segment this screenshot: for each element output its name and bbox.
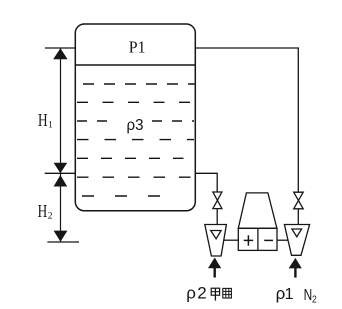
valve V2 left (hourglass) bbox=[213, 192, 222, 209]
differential pressure transmitter body (trapezoid) bbox=[238, 193, 277, 228]
label methanol CJK char chun bbox=[223, 288, 232, 298]
dimension arrow top (up) bbox=[53, 48, 67, 59]
svg-text:ρ: ρ bbox=[186, 283, 196, 302]
dimension tick bottom bbox=[47, 241, 79, 243]
liquid level dashes row 2 bbox=[77, 101, 192, 103]
tank T1 vessel outline bbox=[75, 24, 195, 211]
rotameter FI2 left (funnel) bbox=[205, 225, 227, 257]
liquid level dashes row 5 bbox=[77, 157, 184, 159]
dimension arrow middle pointing up bbox=[54, 175, 68, 187]
label rho3 density of liquid bbox=[127, 117, 144, 134]
impulse line transmitter to right rotameter bbox=[277, 239, 288, 241]
methanol inlet arrow (filled) bbox=[208, 258, 220, 278]
impulse line left rotameter to transmitter bbox=[224, 239, 239, 241]
label P1 bbox=[129, 37, 146, 56]
minus chamber sign bbox=[264, 239, 273, 241]
svg-text:1: 1 bbox=[285, 286, 294, 303]
svg-text:1: 1 bbox=[48, 121, 53, 131]
svg-text:H: H bbox=[38, 110, 48, 130]
pipe left valve to rotameter bbox=[216, 209, 218, 225]
top impulse pipe from tank top to right valve bbox=[195, 48, 298, 192]
lower tap pipe from tank side to left valve bbox=[195, 173, 217, 192]
svg-text:2: 2 bbox=[197, 283, 206, 302]
label methanol CJK char jia bbox=[211, 288, 219, 300]
liquid level dashes row 6 bbox=[77, 176, 191, 178]
tank header divider line bbox=[75, 64, 195, 66]
label rho2 methanol density bbox=[186, 283, 207, 302]
dimension tick top bbox=[45, 47, 75, 49]
svg-text:ρ3: ρ3 bbox=[127, 117, 144, 134]
plus chamber sign bbox=[244, 235, 254, 245]
rotameter FI1 float triangle bbox=[292, 229, 302, 237]
liquid level dashes row 3 left bbox=[77, 120, 117, 122]
label N2 nitrogen bbox=[304, 287, 317, 306]
liquid level dashes row 7 bbox=[82, 195, 163, 197]
pipe right valve to rotameter bbox=[297, 209, 299, 225]
nitrogen inlet arrow (filled) bbox=[289, 258, 301, 277]
dimension arrow middle pointing down bbox=[54, 163, 68, 173]
liquid level dashes row 4 bbox=[77, 139, 194, 141]
label H2 bbox=[38, 201, 53, 222]
svg-text:H: H bbox=[38, 201, 48, 221]
svg-text:N: N bbox=[304, 287, 313, 304]
svg-text:2: 2 bbox=[312, 294, 317, 306]
rotameter FI2 float triangle bbox=[211, 231, 221, 239]
label H1 bbox=[38, 110, 53, 131]
svg-text:P1: P1 bbox=[129, 37, 146, 56]
dimension arrow bottom (down) bbox=[54, 231, 68, 242]
rotameter FI1 right (funnel) bbox=[284, 225, 309, 256]
label rho1 nitrogen density bbox=[276, 284, 294, 303]
liquid level dashes row 1 bbox=[83, 83, 195, 85]
dimension tick middle bbox=[45, 172, 76, 174]
svg-text:2: 2 bbox=[48, 212, 53, 222]
dimension extension line vertical bbox=[60, 48, 62, 242]
valve V1 right (hourglass) bbox=[294, 192, 304, 209]
liquid level dashes row 3 right bbox=[152, 120, 194, 122]
transmitter measuring chambers box bbox=[238, 228, 277, 250]
